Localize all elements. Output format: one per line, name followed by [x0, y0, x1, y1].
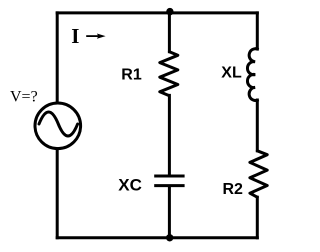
svg-text:R1: R1 — [121, 67, 142, 84]
svg-text:R2: R2 — [223, 181, 244, 198]
svg-text:XC: XC — [118, 176, 142, 195]
svg-text:XL: XL — [221, 64, 242, 81]
svg-text:I: I — [71, 24, 79, 48]
svg-text:V=?: V=? — [10, 89, 38, 106]
